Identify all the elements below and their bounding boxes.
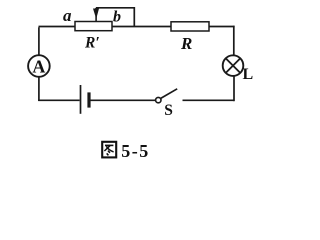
switch S pivot xyxy=(156,97,161,102)
wire slider bypass horizontal xyxy=(96,7,134,9)
wire right vertical upper xyxy=(233,26,235,56)
svg-text:A: A xyxy=(32,57,45,77)
battery cell short thick plate xyxy=(87,92,90,107)
wire bypass vertical drop xyxy=(133,7,135,27)
rheostat slider arrow xyxy=(93,8,99,21)
switch S lever xyxy=(161,89,178,99)
svg-text:b: b xyxy=(113,9,121,26)
wire battery to switch xyxy=(91,99,156,101)
wire rheostat to resistor R with junction xyxy=(112,26,171,28)
svg-text:a: a xyxy=(63,6,72,25)
svg-text:S: S xyxy=(164,102,173,119)
resistor R body xyxy=(171,22,209,31)
ammeter A xyxy=(28,55,50,77)
wire switch to bottom-right corner xyxy=(183,99,235,101)
wire bottom-left to battery xyxy=(38,99,79,101)
svg-text:R: R xyxy=(180,34,192,53)
svg-text:R′: R′ xyxy=(84,35,100,52)
caption hanzi 图 (drawn) xyxy=(102,142,116,158)
wire top-right horizontal xyxy=(209,26,235,28)
svg-text:5-5: 5-5 xyxy=(121,141,150,161)
svg-text:L: L xyxy=(243,66,254,83)
wire left vertical lower xyxy=(38,77,40,101)
battery cell long plate xyxy=(80,85,82,114)
rheostat R' body xyxy=(75,22,112,31)
wire top-left horizontal xyxy=(39,26,76,28)
lamp L xyxy=(223,55,244,76)
wire left vertical upper xyxy=(38,27,40,55)
wire right vertical lower xyxy=(233,76,235,101)
